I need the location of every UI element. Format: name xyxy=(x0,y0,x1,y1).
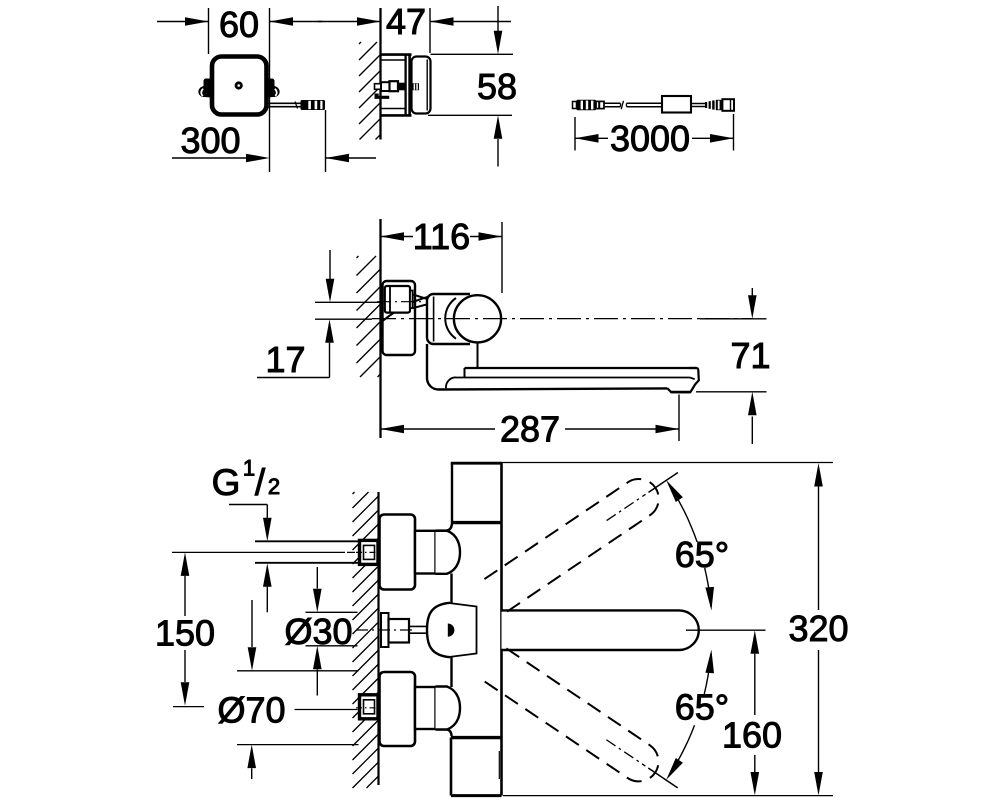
dim 17 arrows xyxy=(329,250,331,279)
dim 60/300 extension line right xyxy=(269,8,271,172)
box side: screw right of bars xyxy=(412,83,420,90)
dim 116 extension line right xyxy=(501,222,503,293)
wall line (side view) xyxy=(379,8,381,140)
box side: hook below port xyxy=(375,94,390,99)
dim 58 boundary lines xyxy=(431,53,514,55)
spout top step xyxy=(477,342,479,367)
cable wire left of filter xyxy=(627,102,663,104)
dim 150 bottom boundary xyxy=(173,706,204,708)
bottom port dome xyxy=(436,687,461,730)
dim 300 line+arrows xyxy=(172,157,248,159)
dim G1/2 leader+arrow xyxy=(229,504,267,506)
dim O70 arrows xyxy=(251,600,253,647)
dim 60 extension line left xyxy=(208,8,210,54)
top port flange xyxy=(380,515,416,590)
dim 116 line+arrows xyxy=(381,236,414,238)
svg-text:3000: 3000 xyxy=(610,118,690,159)
inlet step ring xyxy=(410,291,413,309)
dim 60 line+arrows xyxy=(157,21,209,23)
faucet body (front) xyxy=(436,463,453,531)
box side: main body xyxy=(412,57,431,114)
middle port: cable connector through wall xyxy=(381,613,389,647)
dim 58 arrows xyxy=(497,6,499,32)
cable from box xyxy=(268,102,301,104)
dim O30 boundary lines xyxy=(306,611,358,613)
box side: mounting plate xyxy=(381,53,412,56)
bottom hex nut (front) xyxy=(360,695,379,719)
spout inner corner xyxy=(446,377,456,388)
middle sensor dome xyxy=(427,603,450,657)
dim 3000 line+arrows xyxy=(575,137,608,139)
svg-text:58: 58 xyxy=(477,66,517,107)
sensor housing in body xyxy=(448,603,477,657)
dim 71 arrows xyxy=(751,288,753,296)
svg-text:47: 47 xyxy=(386,1,426,42)
wall line (front view) xyxy=(377,492,379,785)
box side: lid double bars xyxy=(404,54,406,116)
svg-text:65°: 65° xyxy=(675,534,729,575)
svg-text:1: 1 xyxy=(243,456,255,481)
top port dome xyxy=(436,531,461,574)
dim 150 line bottom xyxy=(184,650,186,682)
cable assembly: right plug body xyxy=(722,99,734,111)
svg-text:Ø70: Ø70 xyxy=(217,690,285,731)
bottom port flange xyxy=(380,672,416,746)
middle port needle xyxy=(409,625,427,627)
dim 287 line+arrows xyxy=(381,428,496,430)
cable filter box xyxy=(662,96,691,113)
dim 17 extension lines xyxy=(315,301,380,303)
control box center dot xyxy=(236,83,241,88)
dim O30 arrows xyxy=(316,567,318,589)
faucet ball circle (side) xyxy=(454,295,501,342)
dim 150 line top xyxy=(184,576,186,616)
65deg arc upper xyxy=(705,568,711,607)
faucet escutcheon (side) xyxy=(383,281,416,355)
svg-text:Ø30: Ø30 xyxy=(284,611,352,652)
box side: cable port through wall xyxy=(375,84,382,90)
svg-text:160: 160 xyxy=(722,715,782,756)
65deg arc lower xyxy=(704,653,711,694)
cable wire left xyxy=(604,102,621,104)
spout tip xyxy=(689,368,699,385)
spout aerator outlet xyxy=(668,385,695,392)
dim 47 line+arrows xyxy=(318,21,381,23)
spout (front, solid) xyxy=(502,610,699,650)
pipe centerline / 150 top boundary xyxy=(172,551,345,553)
sensor window (black) xyxy=(448,624,455,637)
svg-text:/: / xyxy=(255,462,266,503)
dim 320 boundary top xyxy=(502,462,834,464)
control box right mounting tab xyxy=(267,79,280,98)
wall hatching (middle view) xyxy=(357,256,359,258)
svg-text:287: 287 xyxy=(500,409,560,450)
dim 320 line+arrows xyxy=(814,463,823,487)
spout centerline extension xyxy=(686,629,766,631)
svg-text:320: 320 xyxy=(788,608,848,649)
inlet nut (side) xyxy=(385,286,410,313)
cable assembly: right rings xyxy=(705,102,707,108)
dim 160 line+arrows xyxy=(751,630,760,654)
cable assembly: left collar xyxy=(596,101,604,108)
dim 300 right extension line xyxy=(325,110,327,172)
svg-text:116: 116 xyxy=(413,216,470,257)
dim 17 leader xyxy=(257,377,330,379)
cable break ticks xyxy=(621,101,623,109)
elbow and spout underside xyxy=(427,344,668,390)
faucet body block (side) xyxy=(427,294,470,344)
svg-text:2: 2 xyxy=(268,474,280,499)
bottom port middle cylinder xyxy=(415,687,436,729)
dim O70 boundary lines xyxy=(237,670,359,672)
cable assembly: left plug xyxy=(577,100,597,110)
main centerline (side view) xyxy=(372,318,752,320)
control box left mounting tab xyxy=(198,79,211,98)
dim 47 extension line right xyxy=(429,8,431,53)
supply pipe (front) xyxy=(255,540,358,542)
G1/2 lower arrow xyxy=(263,563,272,587)
dim 287 extension line right xyxy=(678,395,680,442)
dim 71 boundary lines xyxy=(700,318,767,320)
cable connector plug xyxy=(301,100,326,110)
wall hatching (front view) xyxy=(353,492,355,494)
cable assembly: left plug tip xyxy=(573,102,577,109)
top port middle cylinder xyxy=(415,531,436,574)
svg-text:71: 71 xyxy=(730,335,770,376)
svg-text:150: 150 xyxy=(155,613,215,654)
svg-text:300: 300 xyxy=(180,120,240,161)
svg-text:17: 17 xyxy=(265,339,305,380)
control box outline xyxy=(212,57,267,115)
dim 320 boundary bottom xyxy=(503,795,833,797)
svg-text:G: G xyxy=(212,462,241,503)
wall hatching (side view) xyxy=(359,42,361,44)
middle port centerline xyxy=(356,629,412,631)
top hex nut (front) xyxy=(360,540,379,564)
valve cylinder edge arc xyxy=(445,298,456,339)
inlet cone to body xyxy=(413,294,428,299)
svg-text:60: 60 xyxy=(219,4,259,45)
cable assembly: right ribbed sleeve xyxy=(716,100,723,110)
body flare curve to wall xyxy=(383,297,428,321)
cable wire right of filter xyxy=(691,103,707,105)
wall line (middle view) xyxy=(379,219,381,438)
dim 3000 extension lines xyxy=(574,117,576,151)
dashed spout lower (rotated) xyxy=(484,648,689,800)
dashed spout upper (rotated) xyxy=(484,456,689,612)
upper pipe centerline xyxy=(377,301,421,303)
